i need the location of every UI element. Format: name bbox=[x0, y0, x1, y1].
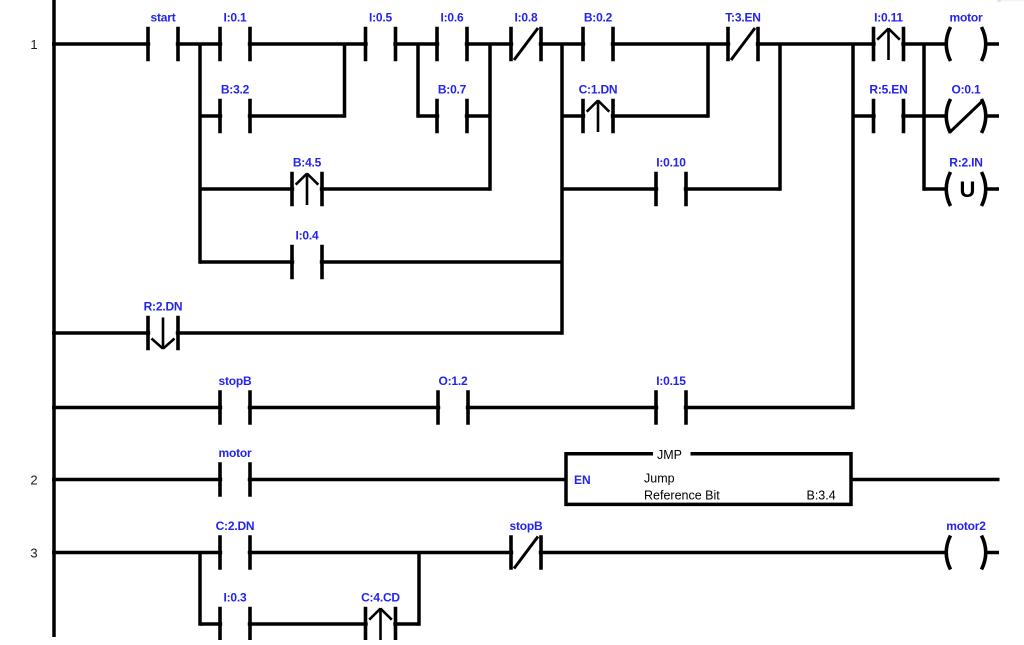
svg-text:B:4.5: B:4.5 bbox=[293, 156, 322, 170]
svg-text:I:0.8: I:0.8 bbox=[514, 11, 538, 25]
svg-text:B:3.2: B:3.2 bbox=[221, 83, 250, 97]
contact B:0.7 (NO) bbox=[437, 83, 467, 134]
scrollbar artifact top-right bbox=[997, 0, 1024, 2]
contact C:4.CD (OSR one-shot rising) bbox=[361, 591, 400, 642]
contact I:0.8 (NC) bbox=[511, 11, 541, 62]
svg-text:T:3.EN: T:3.EN bbox=[725, 11, 760, 25]
wire branch B:4.5 row bbox=[200, 187, 490, 191]
contact I:0.4 (NO) bbox=[292, 229, 322, 280]
svg-text:R:2.DN: R:2.DN bbox=[144, 300, 183, 314]
svg-text:I:0.6: I:0.6 bbox=[440, 11, 464, 25]
svg-text:Reference Bit: Reference Bit bbox=[644, 488, 720, 502]
contact B:0.2 (NO) bbox=[583, 11, 613, 62]
contact T:3.EN (NC) bbox=[725, 11, 760, 62]
svg-text:R:2.IN: R:2.IN bbox=[949, 156, 982, 170]
svg-text:3: 3 bbox=[30, 546, 37, 561]
contact C:2.DN (NO) bbox=[216, 519, 255, 570]
svg-text:B:0.2: B:0.2 bbox=[584, 11, 613, 25]
rung number 1 bbox=[30, 37, 37, 52]
svg-text:stopB: stopB bbox=[219, 374, 253, 388]
junction vertical B:3.2 right join bbox=[343, 43, 347, 118]
svg-text:I:0.3: I:0.3 bbox=[223, 591, 247, 605]
coil motor2 bbox=[946, 519, 986, 570]
svg-text:I:0.11: I:0.11 bbox=[874, 11, 903, 25]
wire rung2 left bbox=[52, 478, 566, 482]
rung number 2 bbox=[30, 473, 37, 488]
wire branch B:0.7 row bbox=[418, 114, 490, 118]
junction vertical I:0.10 right join bbox=[778, 43, 782, 191]
svg-text:U: U bbox=[960, 177, 976, 202]
contact B:4.5 (OSR one-shot rising) bbox=[292, 156, 322, 207]
wire branch R:2.DN row bbox=[52, 331, 562, 335]
contact R:2.DN (OSF one-shot falling) bbox=[144, 300, 183, 351]
svg-text:JMP: JMP bbox=[657, 448, 682, 462]
svg-text:C:1.DN: C:1.DN bbox=[579, 83, 618, 97]
wire branch stopB row bbox=[52, 406, 853, 410]
wire branch R:2.IN row bbox=[924, 187, 946, 191]
svg-text:stopB: stopB bbox=[510, 519, 544, 533]
junction vertical R:5.EN stopB-row node bbox=[851, 43, 855, 410]
svg-text:I:0.5: I:0.5 bbox=[369, 11, 393, 25]
wire branch C:1.DN row bbox=[562, 114, 708, 118]
svg-text:O:1.2: O:1.2 bbox=[438, 374, 468, 388]
contact I:0.3 (NO) bbox=[220, 591, 250, 642]
junction vertical C:1.DN I:0.10 I:0.4 R:2.DN node bbox=[560, 43, 564, 335]
svg-text:I:0.15: I:0.15 bbox=[656, 374, 686, 388]
wire rung3 sub-branch row bbox=[200, 622, 419, 626]
contact I:0.15 (NO) bbox=[656, 374, 686, 425]
contact stopB (NC) bbox=[510, 519, 544, 570]
junction vertical B:0.7 left bbox=[416, 43, 420, 118]
rung number 3 bbox=[30, 546, 37, 561]
wire rung1 main bbox=[52, 42, 946, 46]
coil motor bbox=[946, 11, 986, 62]
svg-text:B:0.7: B:0.7 bbox=[438, 83, 467, 97]
svg-text:O:0.1: O:0.1 bbox=[951, 83, 981, 97]
junction vertical after start bbox=[198, 43, 202, 264]
junction vertical rung3 branch right join bbox=[417, 551, 421, 626]
contact start (NO) bbox=[148, 11, 178, 62]
wire rung1 coil stub bbox=[988, 42, 1000, 46]
instruction box JMP bbox=[566, 448, 851, 506]
svg-text:motor2: motor2 bbox=[946, 519, 986, 533]
wire branch B:3.2 row bbox=[200, 114, 345, 118]
wire O:0.1 coil stub bbox=[988, 114, 1000, 118]
svg-text:B:3.4: B:3.4 bbox=[807, 488, 836, 502]
svg-text:motor: motor bbox=[950, 11, 984, 25]
svg-text:I:0.4: I:0.4 bbox=[295, 229, 319, 243]
svg-text:C:4.CD: C:4.CD bbox=[361, 591, 400, 605]
contact I:0.11 (OSR one-shot rising) bbox=[874, 11, 904, 62]
wire branch R:5.EN row bbox=[853, 114, 946, 118]
svg-text:I:0.1: I:0.1 bbox=[223, 11, 247, 25]
wire rung2 right bbox=[851, 478, 1000, 482]
svg-text:Jump: Jump bbox=[644, 472, 675, 486]
junction vertical rung3 branch left bbox=[198, 551, 202, 626]
svg-text:1: 1 bbox=[30, 37, 37, 52]
svg-text:C:2.DN: C:2.DN bbox=[216, 519, 255, 533]
wire rung3 main bbox=[52, 551, 946, 555]
contact O:1.2 (NO) bbox=[438, 374, 468, 425]
contact I:0.1 (NO) bbox=[220, 11, 250, 62]
left power rail bbox=[52, 0, 56, 637]
svg-text:motor: motor bbox=[219, 446, 253, 460]
junction vertical B:0.7 B:4.5 right join bbox=[488, 43, 492, 191]
contact motor (NO) bbox=[219, 446, 253, 497]
contact I:0.10 (NO) bbox=[656, 156, 686, 207]
coil O:0.1 bbox=[946, 83, 986, 134]
contact B:3.2 (NO) bbox=[220, 83, 250, 134]
svg-text:start: start bbox=[150, 11, 175, 25]
svg-text:EN: EN bbox=[574, 473, 591, 487]
contact R:5.EN (NO) bbox=[869, 83, 907, 134]
coil R:2.IN bbox=[946, 156, 986, 207]
wire R:2.IN coil stub bbox=[988, 187, 1000, 191]
junction vertical C:1.DN right join bbox=[706, 43, 710, 118]
svg-text:I:0.10: I:0.10 bbox=[656, 156, 686, 170]
junction vertical coil branch node bbox=[922, 43, 926, 191]
contact I:0.5 (NO) bbox=[366, 11, 396, 62]
contact stopB (NO) bbox=[219, 374, 253, 425]
wire branch I:0.10 row bbox=[562, 187, 780, 191]
svg-text:R:5.EN: R:5.EN bbox=[869, 83, 907, 97]
wire branch I:0.4 row bbox=[200, 260, 562, 264]
svg-text:2: 2 bbox=[30, 473, 37, 488]
wire motor2 coil stub bbox=[988, 551, 1000, 555]
contact C:1.DN (OSR one-shot rising) bbox=[579, 83, 618, 134]
contact I:0.6 (NO) bbox=[437, 11, 467, 62]
